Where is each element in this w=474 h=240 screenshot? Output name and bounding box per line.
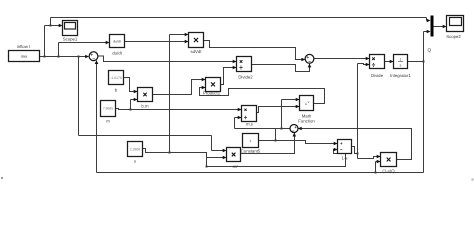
svg-text:Divide: Divide [371,73,384,78]
node junction sV branch [78,56,80,58]
wire Sum1 output to Divide2 input1 [98,56,236,61]
block Divide [370,55,385,78]
wire Derivative output to product sdVdt input2 [125,41,188,43]
arrow into Sum3 left [301,58,305,62]
product sdVdt [189,33,204,55]
wire branch down to product sV input1 [79,57,226,151]
arrow into sV input2 [223,156,227,160]
wire 1-s up to Divide input2 [358,64,370,154]
wire product sV output to Sum2 bottom [241,133,295,154]
wire bottom feedback Q to Sum1 bottom [97,61,424,173]
svg-text:u: u [305,102,307,106]
wire 1-s to product (1-s)Q input1 [358,154,381,159]
svg-text:Scope2: Scope2 [446,34,461,39]
arrowheads [59,19,447,164]
svg-text:s: s [134,159,136,164]
wire Divide2 output to Sum3 bottom [252,64,310,72]
wire Product1 output to Divide2 input2 [221,68,237,85]
arrow into b.m input2 [134,98,138,102]
wire product b.m output to Product1 input1 [153,80,206,95]
svg-text:Product1: Product1 [203,91,221,96]
node stray speck bottom-right [472,179,474,181]
svg-text:Constant5: Constant5 [241,149,261,154]
svg-text:Function: Function [298,118,315,123]
node junction at data/Scope1 branch [44,56,46,58]
node junction derivative branch [58,56,60,58]
arrow into Product1 input2 [202,86,206,90]
arrow into m.s input2 [238,116,242,120]
svg-text:du/dt: du/dt [113,40,121,44]
arrow into Derivative [106,41,110,45]
arrow into Divide2 input1 [233,60,237,64]
arrow into Sum3 bottom [308,64,312,68]
arrow into m.s input1 [238,108,242,112]
svg-text:7.8685: 7.8685 [103,107,113,111]
svg-text:du/dt: du/dt [112,50,122,55]
wire branch to m.s input2 [235,118,242,129]
arrow into Math Function input1 [296,98,300,102]
arrow into Sum2 bottom [293,133,297,137]
arrow into Scope2 [443,25,447,29]
arrow into sV input1 [223,149,227,153]
node junction 1-s output [357,153,359,155]
node junction constant-one net [275,140,277,142]
wire constant m output to m.s input1 [116,109,242,110]
svg-text:inflow I: inflow I [17,44,30,49]
block Math Function [298,96,315,124]
product (1-s)Q [381,153,397,174]
node junction math input1 branch [281,128,283,130]
svg-text:1: 1 [400,57,402,61]
node junction Q [423,61,425,63]
arrow into Sum1 left [85,55,89,59]
constant Constant5 [241,134,261,154]
constant s [128,142,143,164]
wire Mux output to Scope2 [434,26,446,28]
arrow into (1-s)Q input1 [377,155,381,159]
svg-text:-1.6176: -1.6176 [110,76,122,80]
wire Sum3 output to Divide input1 [314,58,369,60]
arrow into (1-s)Q input2 [377,160,381,164]
wire Math Function output loop to Product1 input2 [200,88,325,104]
svg-text:s: s [400,64,402,68]
wire branch one-net up [275,129,277,141]
wire one-net horizontal to Sum2 left [235,128,290,130]
block Integrator1 [390,55,411,78]
node junction Q feedback branch [375,172,377,174]
wire Divide output to Integrator1 [385,61,394,63]
wire top long line to Mux input1 [51,18,430,26]
wire constant b output to b.m input1 [124,78,138,92]
node junction Scope1/top line [50,25,52,27]
wire data output to Sum1 [40,56,88,58]
sum Sum3 [305,54,314,63]
node junction on m wire [130,109,132,111]
arrow into Mux input2 [427,30,431,34]
wire branch s to sV input2 [207,157,226,159]
constant m [101,101,116,124]
svg-text:m.s: m.s [246,122,253,127]
product Product1 [203,78,221,96]
node stray speck bottom-left [1,177,3,179]
wire s net vertical up to product sdVdt input1 [170,35,188,153]
svg-text:v: v [308,100,310,104]
arrow into Divide input2 [366,63,370,67]
mux Mux [431,16,434,37]
wire 1-s output jog [352,147,358,154]
svg-text:Q: Q [428,48,432,53]
node junction s net [206,166,208,168]
wire branch to Derivative [59,43,109,57]
wire Integrator1 output Q to junction [408,61,424,63]
sum 1-s [338,140,352,161]
wire s net to sum 1-s input2 [207,150,346,167]
wire branch up to Scope1 [45,26,62,57]
svg-text:Scope1: Scope1 [63,36,78,41]
svg-text:b.m: b.m [141,104,149,109]
svg-text:Divide2: Divide2 [238,74,253,79]
block Derivative [110,35,125,56]
wire Constant5 output to sum 1-s input1 [259,141,338,144]
scope Scope2 [446,16,463,40]
svg-text:(1-s)Q: (1-s)Q [382,169,395,174]
arrow into b.m input1 [134,90,138,94]
arrow into Divide2 input2 [233,66,237,70]
constant b [109,71,124,93]
svg-text:1-s: 1-s [342,156,348,161]
arrow into Divide input1 [366,57,370,61]
svg-text:Integrator1: Integrator1 [390,73,411,78]
scope Scope1 [63,21,78,42]
wire (1-s)Q output to Sum2 right [298,129,411,160]
product b.m [138,88,153,109]
arrow into Math Function input2 [296,105,300,109]
block m.s [242,106,257,127]
wire branch m to b.m input2 [131,100,138,110]
svg-text:m: m [106,119,110,124]
arrow into sdVdt input2 [185,40,189,44]
wire m.s output to Math Function input2 [257,107,300,113]
wire product sdVdt output to Sum3 left [204,41,305,60]
arrow into Sum1 bottom [95,60,99,64]
arrow into Sum2 right [298,127,302,131]
wire branch up to Math Function input1 [282,100,300,129]
arrow into Scope1 [59,24,63,28]
arrow into sdVdt input1 [185,33,189,37]
svg-text:data: data [21,55,28,59]
product sV [227,148,241,170]
wire Q up to Mux input2 [424,32,430,62]
sum Sum2 [290,125,298,133]
arrow into Integrator1 [390,60,394,64]
svg-text:1: 1 [250,139,252,143]
node junction on s wire [169,152,171,154]
block data (From Workspace) [9,44,40,62]
sum Sum1 [89,52,98,61]
arrow into 1-s input2 [334,148,338,152]
arrow into Product1 input1 [202,78,206,82]
wire Q feedback up to (1-s)Q input2 [376,162,381,173]
svg-text:sdVdt: sdVdt [191,49,203,54]
arrow into 1-s input1 [334,142,338,146]
arrow into Mux input1 [427,19,431,23]
wire constant s output to junction [143,149,207,167]
svg-text:sV: sV [232,164,237,169]
svg-text:2.2808: 2.2808 [130,148,140,152]
block Divide2 [237,57,254,80]
